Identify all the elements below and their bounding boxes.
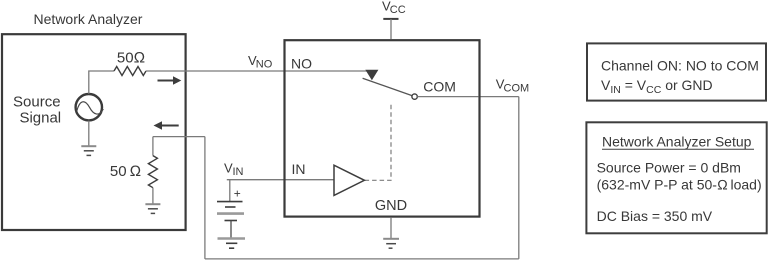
ground (IC): [383, 218, 399, 248]
source V1: [76, 94, 104, 120]
wire COM contact to box edge: [417, 96, 478, 98]
resistor R2: [148, 137, 157, 204]
svg-text:DC Bias = 350 mV: DC Bias = 350 mV: [597, 208, 713, 224]
note box 1 text line 2: [601, 77, 713, 96]
wire VIN battery to IN pin: [227, 179, 334, 181]
svg-text:CC: CC: [390, 4, 406, 16]
svg-text:Source: Source: [13, 94, 61, 111]
wire COM return to resistor R2: [153, 136, 205, 138]
svg-text:(632-mV P-P at 50-Ω load): (632-mV P-P at 50-Ω load): [597, 176, 762, 192]
svg-text:Channel ON: NO to COM: Channel ON: NO to COM: [601, 58, 759, 74]
svg-text:Network Analyzer Setup: Network Analyzer Setup: [602, 133, 752, 149]
switch lever: [363, 78, 412, 95]
note box 2: [586, 122, 766, 233]
node VIN label: [224, 160, 244, 178]
wire vertical return (right): [518, 97, 520, 259]
wire COM pin to corner: [478, 96, 518, 98]
switch control dashed line: [365, 104, 391, 181]
buffer U1a: [334, 165, 364, 195]
IC box U1: [285, 40, 480, 216]
signal direction arrow (right): [158, 76, 182, 84]
svg-text:IN: IN: [292, 161, 306, 177]
wire vertical return (left): [204, 137, 206, 259]
resistor R1: [114, 67, 146, 76]
svg-text:NO: NO: [256, 59, 273, 71]
ground (source): [81, 121, 96, 156]
node VCOM label: [496, 77, 529, 95]
svg-text:COM: COM: [504, 82, 530, 94]
svg-text:IN: IN: [233, 166, 244, 178]
svg-text:NO: NO: [291, 56, 312, 72]
note box 2 heading: [602, 133, 754, 149]
battery V2: [217, 180, 244, 238]
switch arm contact (triangle): [365, 70, 378, 80]
wire R1 to NO pin: [146, 70, 372, 72]
wire bottom return: [205, 258, 519, 260]
svg-text:Network Analyzer: Network Analyzer: [34, 11, 143, 27]
signal direction arrow (left): [154, 121, 179, 129]
ground (R2): [145, 204, 160, 213]
svg-text:Source Power = 0 dBm: Source Power = 0 dBm: [597, 159, 741, 175]
svg-text:COM: COM: [423, 79, 456, 95]
note box 1: [587, 43, 766, 100]
VCC net label: [382, 0, 406, 16]
svg-text:Signal: Signal: [19, 110, 61, 127]
svg-text:GND: GND: [375, 198, 407, 214]
switch COM contact circle: [412, 94, 417, 99]
svg-text:50 Ω: 50 Ω: [110, 163, 141, 180]
network analyzer box: [2, 34, 186, 230]
VCC power bar: [383, 19, 398, 39]
wire source to resistor R1: [89, 71, 114, 94]
svg-text:+: +: [234, 187, 241, 201]
svg-text:50Ω: 50Ω: [117, 50, 145, 67]
ground (battery): [218, 239, 246, 249]
node VNO label: [248, 53, 273, 71]
